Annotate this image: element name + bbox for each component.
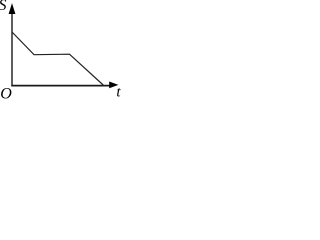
svg-text:O: O: [0, 85, 12, 99]
svg-text:t: t: [116, 85, 121, 99]
y-axis arrowhead: [9, 3, 16, 14]
y-axis (S axis): [11, 8, 13, 86]
svg-text:S: S: [0, 0, 7, 14]
displacement curve polyline: [12, 32, 103, 85]
x-axis arrowhead: [109, 82, 118, 89]
x-axis (t axis): [11, 85, 112, 87]
